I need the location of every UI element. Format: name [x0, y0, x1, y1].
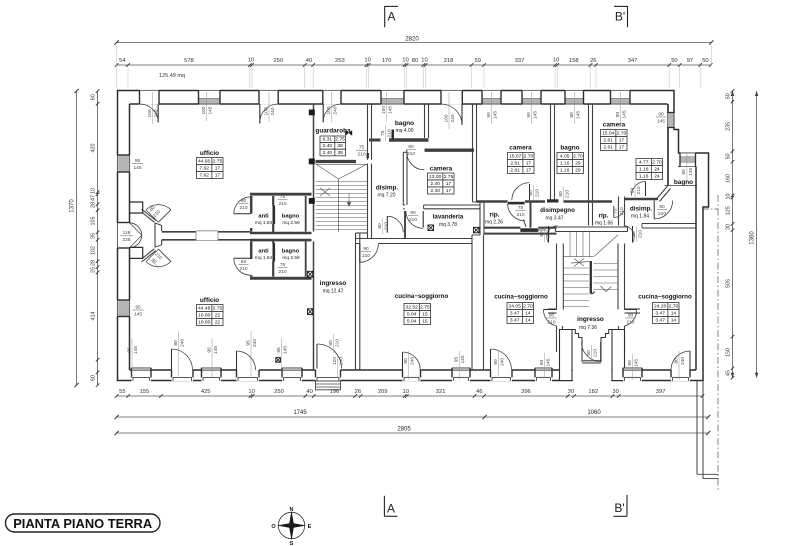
svg-text:disimpegno: disimpegno	[540, 207, 575, 214]
svg-text:90: 90	[627, 360, 633, 366]
svg-text:guardaroba: guardaroba	[315, 128, 351, 135]
svg-text:mq 7.36: mq 7.36	[579, 325, 597, 331]
svg-text:mq 4.00: mq 4.00	[395, 128, 413, 134]
svg-text:90: 90	[328, 340, 334, 346]
svg-text:1.16: 1.16	[639, 174, 649, 180]
svg-text:210: 210	[357, 152, 365, 158]
svg-text:47: 47	[91, 195, 97, 201]
svg-text:camera: camera	[603, 122, 626, 129]
svg-text:80: 80	[659, 204, 665, 210]
svg-text:55: 55	[119, 389, 125, 395]
svg-text:50: 50	[702, 58, 708, 64]
svg-text:anti: anti	[258, 214, 269, 220]
svg-text:210: 210	[534, 189, 540, 197]
svg-text:30: 30	[726, 224, 732, 230]
svg-text:210: 210	[362, 253, 370, 259]
svg-text:2.40: 2.40	[323, 143, 333, 149]
svg-text:145: 145	[460, 355, 466, 363]
svg-text:240: 240	[332, 106, 338, 114]
svg-text:80: 80	[241, 198, 247, 204]
svg-text:2.75: 2.75	[335, 137, 345, 143]
svg-text:17: 17	[215, 166, 221, 172]
svg-text:B': B'	[615, 10, 625, 24]
svg-text:102: 102	[91, 246, 97, 255]
svg-text:95: 95	[276, 347, 282, 353]
svg-text:PIANTA PIANO TERRA: PIANTA PIANO TERRA	[13, 516, 153, 531]
svg-text:90: 90	[628, 312, 634, 318]
svg-text:2.61: 2.61	[603, 138, 613, 144]
svg-text:13.00: 13.00	[429, 174, 442, 180]
svg-text:210: 210	[547, 319, 555, 325]
svg-text:mq 12.47: mq 12.47	[323, 289, 344, 295]
svg-text:75: 75	[359, 145, 365, 151]
svg-text:240: 240	[409, 357, 415, 365]
svg-text:2.75: 2.75	[213, 159, 223, 165]
svg-text:145: 145	[532, 111, 538, 119]
svg-text:50: 50	[671, 58, 677, 64]
svg-text:145: 145	[657, 118, 665, 124]
svg-text:S: S	[290, 541, 294, 546]
svg-text:210: 210	[278, 269, 286, 275]
svg-text:396: 396	[521, 389, 531, 395]
svg-text:1.16: 1.16	[639, 167, 649, 173]
svg-text:80: 80	[681, 169, 687, 175]
svg-text:80: 80	[528, 190, 534, 196]
svg-text:40: 40	[306, 58, 312, 64]
svg-text:505: 505	[726, 279, 732, 288]
svg-text:2.70: 2.70	[617, 131, 627, 137]
svg-text:17: 17	[619, 145, 625, 151]
svg-text:321: 321	[436, 389, 446, 395]
svg-text:253: 253	[335, 58, 345, 64]
svg-text:90: 90	[539, 360, 545, 366]
svg-text:38: 38	[337, 143, 343, 149]
svg-text:2.40: 2.40	[430, 181, 440, 187]
svg-text:145: 145	[633, 359, 639, 367]
svg-text:30: 30	[612, 389, 618, 395]
svg-text:95: 95	[206, 347, 212, 353]
svg-text:44.60: 44.60	[198, 159, 211, 165]
svg-text:24: 24	[654, 167, 660, 173]
svg-text:bagno: bagno	[282, 249, 300, 255]
svg-text:95: 95	[245, 340, 251, 346]
svg-text:17: 17	[446, 181, 452, 187]
svg-text:17: 17	[526, 161, 532, 167]
svg-text:cucina−soggiorno: cucina−soggiorno	[494, 294, 548, 301]
svg-text:90: 90	[658, 111, 664, 117]
svg-text:145: 145	[575, 111, 581, 119]
svg-text:2.61: 2.61	[510, 161, 520, 167]
svg-text:mq 1.84: mq 1.84	[255, 255, 273, 261]
svg-text:250: 250	[274, 389, 284, 395]
svg-text:ufficio: ufficio	[200, 150, 219, 157]
svg-text:155: 155	[140, 389, 150, 395]
svg-text:10: 10	[421, 58, 427, 64]
svg-text:145: 145	[213, 346, 219, 354]
svg-text:2.61: 2.61	[603, 145, 613, 151]
svg-text:414: 414	[91, 312, 97, 321]
svg-text:182: 182	[588, 389, 598, 395]
svg-text:2820: 2820	[405, 37, 419, 43]
svg-text:59: 59	[475, 58, 481, 64]
svg-text:160: 160	[726, 174, 732, 183]
svg-text:2.70: 2.70	[652, 160, 662, 166]
svg-text:80: 80	[629, 188, 635, 194]
svg-text:17: 17	[619, 138, 625, 144]
svg-text:29: 29	[575, 161, 581, 167]
svg-text:145: 145	[545, 358, 551, 366]
svg-text:210: 210	[409, 217, 417, 223]
svg-text:210: 210	[658, 211, 666, 217]
svg-text:95: 95	[126, 347, 132, 353]
svg-text:10.00: 10.00	[198, 320, 211, 326]
svg-text:2.75: 2.75	[420, 305, 430, 311]
svg-text:145: 145	[134, 311, 142, 317]
svg-text:mq 1.84: mq 1.84	[255, 220, 273, 226]
svg-text:25: 25	[91, 267, 97, 273]
svg-text:100: 100	[263, 107, 269, 115]
svg-text:17: 17	[215, 173, 221, 179]
svg-text:80: 80	[408, 144, 414, 150]
svg-text:camera: camera	[509, 145, 532, 152]
svg-text:mq 1.84: mq 1.84	[631, 214, 649, 220]
svg-text:mq 3.47: mq 3.47	[545, 216, 563, 222]
svg-text:95: 95	[135, 158, 141, 164]
svg-text:mq 2.26: mq 2.26	[485, 220, 503, 226]
svg-text:578: 578	[184, 58, 194, 64]
svg-text:bagno: bagno	[395, 120, 414, 127]
svg-text:28: 28	[91, 202, 97, 208]
svg-text:90: 90	[549, 312, 555, 318]
svg-text:100: 100	[147, 109, 153, 117]
svg-text:80: 80	[569, 112, 575, 118]
svg-text:1370: 1370	[70, 199, 76, 213]
svg-text:145: 145	[688, 168, 694, 176]
svg-text:145: 145	[133, 346, 139, 354]
svg-text:125: 125	[726, 206, 732, 215]
svg-text:3.47: 3.47	[510, 311, 520, 317]
svg-text:4.77: 4.77	[639, 160, 649, 166]
svg-text:lavanderia: lavanderia	[433, 214, 464, 221]
svg-text:2.70: 2.70	[669, 304, 679, 310]
svg-text:disimp.: disimp.	[630, 206, 653, 213]
svg-text:83: 83	[241, 259, 247, 265]
svg-text:14: 14	[671, 318, 677, 324]
svg-text:397: 397	[656, 389, 666, 395]
svg-text:337: 337	[515, 58, 525, 64]
svg-text:10.00: 10.00	[198, 313, 211, 319]
svg-text:mq 2.58: mq 2.58	[282, 220, 300, 226]
svg-text:35: 35	[91, 233, 97, 239]
svg-text:80: 80	[558, 191, 564, 197]
svg-text:210: 210	[334, 339, 340, 347]
svg-text:bagno: bagno	[674, 179, 693, 186]
svg-text:2.40: 2.40	[323, 150, 333, 156]
svg-text:2.40: 2.40	[430, 188, 440, 194]
svg-text:145: 145	[133, 165, 141, 171]
svg-text:ingresso: ingresso	[577, 316, 604, 323]
svg-text:44.48: 44.48	[198, 306, 211, 312]
svg-text:2.70: 2.70	[524, 154, 534, 160]
svg-text:425: 425	[201, 389, 211, 395]
svg-text:bagno: bagno	[560, 145, 579, 152]
svg-text:100: 100	[443, 114, 449, 122]
svg-text:1.16: 1.16	[560, 168, 570, 174]
svg-text:80: 80	[173, 340, 179, 346]
svg-text:29: 29	[575, 168, 581, 174]
svg-text:150: 150	[726, 348, 732, 357]
svg-text:80: 80	[377, 223, 383, 229]
svg-text:210: 210	[278, 201, 286, 207]
svg-text:15.07: 15.07	[509, 154, 522, 160]
svg-text:ufficio: ufficio	[200, 297, 219, 304]
svg-text:26: 26	[590, 58, 596, 64]
svg-text:210: 210	[239, 205, 247, 211]
svg-text:22: 22	[215, 320, 221, 326]
svg-text:24.20: 24.20	[654, 304, 667, 310]
svg-text:15: 15	[422, 319, 428, 325]
svg-text:210: 210	[636, 186, 642, 194]
svg-text:40: 40	[306, 389, 312, 395]
svg-text:5.04: 5.04	[407, 312, 417, 318]
svg-text:2.70: 2.70	[523, 304, 533, 310]
svg-text:80: 80	[412, 58, 418, 64]
svg-text:240: 240	[450, 114, 456, 122]
svg-text:95: 95	[135, 304, 141, 310]
svg-text:14: 14	[525, 311, 531, 317]
svg-text:145: 145	[492, 111, 498, 119]
svg-text:80: 80	[410, 210, 416, 216]
svg-text:2.61: 2.61	[510, 168, 520, 174]
svg-text:170: 170	[382, 58, 392, 64]
svg-text:210: 210	[407, 151, 415, 157]
svg-text:camera: camera	[430, 166, 453, 173]
svg-text:2.75: 2.75	[213, 306, 223, 312]
svg-text:118: 118	[123, 230, 131, 236]
svg-text:6.31: 6.31	[323, 137, 333, 143]
svg-text:bagno: bagno	[282, 214, 300, 220]
svg-text:10: 10	[726, 193, 732, 199]
svg-text:210: 210	[638, 230, 644, 238]
svg-text:15: 15	[422, 312, 428, 318]
svg-text:225: 225	[122, 237, 130, 243]
svg-text:mq 3.78: mq 3.78	[439, 222, 457, 228]
svg-text:250: 250	[274, 58, 284, 64]
svg-text:60: 60	[91, 94, 97, 100]
svg-text:10: 10	[402, 58, 408, 64]
svg-text:anti: anti	[258, 249, 269, 255]
svg-text:O: O	[271, 524, 276, 530]
svg-text:120: 120	[332, 357, 338, 365]
svg-text:E: E	[308, 524, 312, 530]
svg-text:4.05: 4.05	[560, 154, 570, 160]
svg-text:5.04: 5.04	[407, 319, 417, 325]
svg-text:125.49 mq: 125.49 mq	[159, 73, 185, 79]
svg-text:80: 80	[631, 231, 637, 237]
svg-text:3.47: 3.47	[510, 318, 520, 324]
svg-text:10: 10	[248, 389, 254, 395]
svg-text:60: 60	[91, 375, 97, 381]
svg-text:240: 240	[499, 358, 505, 366]
svg-text:210: 210	[545, 230, 551, 238]
svg-text:54: 54	[119, 58, 126, 64]
svg-text:1.16: 1.16	[560, 161, 570, 167]
svg-text:347: 347	[628, 58, 638, 64]
svg-text:100: 100	[201, 106, 207, 114]
svg-text:90: 90	[615, 112, 621, 118]
svg-text:240: 240	[153, 109, 159, 117]
svg-text:ingresso: ingresso	[320, 280, 347, 287]
svg-text:3.47: 3.47	[655, 311, 665, 317]
svg-text:105: 105	[91, 217, 97, 226]
svg-text:mq 1.66: mq 1.66	[595, 221, 613, 227]
svg-text:28: 28	[91, 260, 97, 266]
svg-text:100: 100	[381, 106, 387, 114]
svg-text:218: 218	[444, 58, 454, 64]
svg-text:10: 10	[553, 58, 559, 64]
svg-text:50: 50	[726, 153, 732, 159]
svg-text:2805: 2805	[397, 427, 411, 433]
svg-text:100: 100	[326, 106, 332, 114]
svg-text:B': B'	[614, 501, 624, 515]
svg-text:50: 50	[726, 93, 732, 99]
svg-text:210: 210	[239, 266, 247, 272]
svg-text:90: 90	[363, 246, 369, 252]
svg-text:145: 145	[621, 110, 627, 118]
svg-text:10: 10	[91, 188, 97, 194]
svg-text:95: 95	[454, 357, 460, 363]
svg-text:rip.: rip.	[490, 212, 500, 219]
svg-text:75: 75	[518, 205, 524, 211]
svg-text:46: 46	[476, 389, 482, 395]
svg-text:10: 10	[403, 389, 409, 395]
svg-text:24: 24	[654, 174, 660, 180]
svg-text:1060: 1060	[587, 410, 601, 416]
svg-text:80: 80	[403, 358, 409, 364]
svg-text:3.47: 3.47	[655, 318, 665, 324]
svg-text:240: 240	[338, 357, 344, 365]
svg-text:1745: 1745	[293, 410, 307, 416]
svg-text:75: 75	[380, 130, 386, 136]
svg-text:22: 22	[215, 313, 221, 319]
svg-text:210: 210	[592, 349, 598, 357]
svg-text:32.52: 32.52	[406, 305, 419, 311]
svg-text:10: 10	[248, 58, 254, 64]
svg-text:240: 240	[179, 339, 185, 347]
svg-text:145: 145	[282, 346, 288, 354]
svg-text:2.70: 2.70	[573, 154, 583, 160]
svg-text:240: 240	[680, 357, 686, 365]
svg-text:75: 75	[280, 194, 286, 200]
svg-text:209: 209	[378, 389, 388, 395]
svg-text:97: 97	[687, 58, 693, 64]
svg-text:240: 240	[252, 339, 258, 347]
svg-text:45: 45	[726, 370, 732, 376]
svg-text:240: 240	[270, 107, 276, 115]
svg-text:cucina−soggiorno: cucina−soggiorno	[638, 294, 692, 301]
svg-text:75: 75	[280, 262, 286, 268]
svg-text:17: 17	[526, 168, 532, 174]
svg-text:2.75: 2.75	[444, 174, 454, 180]
svg-text:90: 90	[486, 112, 492, 118]
svg-text:90: 90	[526, 112, 532, 118]
svg-text:7.62: 7.62	[199, 173, 209, 179]
svg-text:75: 75	[612, 208, 618, 214]
svg-text:14: 14	[525, 318, 531, 324]
svg-text:210: 210	[387, 129, 393, 137]
svg-text:7.62: 7.62	[199, 166, 209, 172]
svg-text:158: 158	[569, 58, 579, 64]
svg-text:mq 7.20: mq 7.20	[377, 193, 395, 199]
svg-text:disimp.: disimp.	[376, 185, 399, 192]
svg-text:80: 80	[673, 358, 679, 364]
svg-text:N: N	[290, 507, 294, 513]
svg-text:mq 2.58: mq 2.58	[282, 255, 300, 261]
svg-text:80: 80	[539, 231, 545, 237]
svg-text:210: 210	[619, 207, 625, 215]
svg-text:90: 90	[586, 350, 592, 356]
svg-text:cucina−soggiorno: cucina−soggiorno	[395, 293, 449, 300]
svg-text:A: A	[387, 502, 395, 516]
svg-text:15.04: 15.04	[602, 131, 615, 137]
svg-text:210: 210	[626, 319, 634, 325]
svg-text:A: A	[387, 10, 395, 24]
svg-text:38: 38	[337, 150, 343, 156]
svg-text:420: 420	[91, 144, 97, 153]
svg-text:90: 90	[493, 359, 499, 365]
svg-text:17: 17	[446, 188, 452, 194]
svg-text:rip.: rip.	[599, 213, 609, 220]
svg-text:210: 210	[384, 222, 390, 230]
svg-text:210: 210	[516, 212, 524, 218]
svg-text:1360: 1360	[750, 231, 756, 245]
svg-text:30: 30	[568, 389, 574, 395]
svg-text:210: 210	[564, 190, 570, 198]
svg-text:235: 235	[726, 122, 732, 131]
svg-text:24.05: 24.05	[509, 304, 522, 310]
svg-text:145: 145	[387, 106, 393, 114]
svg-text:145: 145	[207, 106, 213, 114]
svg-text:10: 10	[364, 58, 370, 64]
svg-text:14: 14	[671, 311, 677, 317]
svg-text:26: 26	[355, 389, 361, 395]
